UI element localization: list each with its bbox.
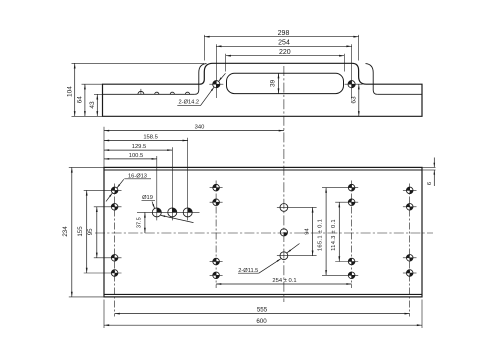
svg-text:37.5: 37.5: [137, 217, 143, 228]
hole projection bump 2: [155, 92, 159, 94]
dimension 100.5: [104, 153, 157, 160]
dimension 298: [204, 30, 358, 38]
profile rear-flange edge line left (43mm line): [103, 93, 195, 95]
plan view plate outline: [104, 167, 422, 297]
extension line raised corner left: [203, 35, 205, 61]
dimension 254: [216, 40, 351, 48]
extension ticks 114.3: [335, 202, 358, 261]
svg-text:254: 254: [278, 40, 290, 47]
svg-text:254 ± 0.1: 254 ± 0.1: [272, 278, 296, 284]
svg-text:95: 95: [87, 228, 94, 235]
svg-text:2-Ø14.2: 2-Ø14.2: [179, 100, 200, 106]
extension line 64 left: [82, 83, 103, 85]
svg-text:600: 600: [256, 318, 267, 325]
column-3 hole row4: [348, 272, 355, 279]
phi19 hole 3: [183, 208, 192, 217]
phi19 hole 1: [152, 208, 161, 217]
profile inner S-bend curve left: [195, 64, 207, 95]
dimension 340: [104, 125, 284, 132]
plan inner edge line bottom: [104, 293, 422, 295]
svg-text:129.5: 129.5: [132, 144, 147, 150]
svg-text:555: 555: [257, 307, 268, 314]
dimension 234: [62, 167, 73, 297]
svg-text:234: 234: [62, 226, 69, 237]
far-right column hole row2: [406, 204, 413, 211]
profile rear-flange edge line right: [377, 93, 422, 95]
dimension 220: [226, 49, 345, 57]
dimension 129.5: [104, 144, 172, 151]
dimension 63 right: [350, 84, 359, 116]
svg-text:155: 155: [77, 226, 84, 237]
center column middle circle (BR quadrant filled): [280, 229, 287, 236]
phi19 hole vertical ticks: [157, 205, 188, 221]
column-2 hole row3: [213, 258, 220, 265]
profile hole left (phi14.2): [213, 81, 220, 88]
dimension 6 edge thickness: [427, 158, 435, 187]
left column hole row4: [111, 270, 118, 277]
dimension 254 +-0.1: [216, 278, 352, 285]
dimension 600: [104, 318, 422, 326]
extension ticks 165.1: [322, 188, 358, 276]
svg-text:165.1 ± 0.1: 165.1 ± 0.1: [318, 219, 324, 251]
dimension 555: [115, 307, 410, 315]
far-right column hole row3: [406, 254, 413, 261]
hole projection bump 1 with center tick: [138, 89, 144, 94]
center column bottom circle: [280, 252, 288, 260]
profile hole right (phi14.2): [348, 81, 355, 88]
extension line phi19 hole3 up: [187, 138, 189, 205]
far-right column hole ticks: [403, 190, 417, 273]
column-2 hole row1: [213, 184, 220, 191]
svg-text:100.5: 100.5: [129, 153, 144, 159]
left column hole row2: [111, 204, 118, 211]
left hole column centerline: [114, 184, 116, 317]
svg-text:340: 340: [195, 125, 205, 131]
column-2 hole ticks: [210, 188, 223, 276]
label 2-phi11.5 with leader: [238, 244, 300, 274]
extension line slot end right: [343, 54, 345, 72]
extension line top-left 104: [72, 62, 205, 64]
extension row lines 155: [84, 190, 122, 273]
hole projection bump 4: [185, 92, 189, 94]
extension line raised corner right: [358, 35, 360, 61]
svg-text:2-Ø11.5: 2-Ø11.5: [238, 268, 258, 274]
extension row lines 95: [94, 207, 122, 258]
svg-text:6: 6: [427, 182, 433, 185]
dimension 158.5: [104, 135, 188, 142]
extension lines 234 left: [69, 167, 104, 297]
svg-text:158.5: 158.5: [143, 135, 158, 141]
extension line plan top-left edge: [103, 127, 105, 168]
main vertical centerline through both views: [283, 66, 285, 302]
dimension 104: [66, 63, 75, 116]
dimension 43: [89, 94, 98, 116]
column-2 centerline: [215, 181, 217, 289]
svg-text:298: 298: [278, 30, 290, 37]
phi19 hole 2: [168, 208, 177, 217]
profile hole left centerline: [209, 44, 223, 98]
extension line phi19 hole1 up: [156, 156, 158, 205]
dimension 114.3 +-0.1: [331, 202, 340, 261]
far-right column hole row1: [406, 187, 413, 194]
extension line phi19 hole2 up: [171, 147, 173, 204]
left column hole row3: [111, 254, 118, 261]
extension line bottom-left: [72, 115, 103, 117]
svg-text:104: 104: [66, 86, 73, 97]
column-3 hole row3: [348, 258, 355, 265]
svg-text:114.3 ± 0.1: 114.3 ± 0.1: [331, 219, 337, 251]
column-3 centerline: [351, 181, 353, 289]
label phi19 with leader: [142, 195, 194, 222]
far-right hole column centerline: [409, 184, 411, 317]
label 2-phi14.2 with leader: [177, 73, 225, 105]
main horizontal centerline: [95, 232, 433, 234]
svg-text:63: 63: [350, 96, 357, 104]
svg-text:220: 220: [279, 49, 291, 56]
far-right column hole row4: [406, 270, 413, 277]
center column top circle: [280, 204, 288, 212]
dimension 155: [77, 190, 88, 273]
extension lines 600: [104, 300, 422, 329]
svg-text:94: 94: [304, 228, 310, 235]
svg-text:39: 39: [270, 79, 277, 87]
svg-text:64: 64: [77, 96, 84, 104]
column-2 hole row4: [213, 272, 220, 279]
dimension 37.5: [137, 212, 146, 233]
column-3 hole row1: [348, 184, 355, 191]
svg-text:43: 43: [89, 101, 96, 109]
profile view outline of bent plate: [103, 63, 423, 116]
hole projection bump 3: [170, 92, 174, 94]
dimension 165.1 +-0.1: [318, 188, 327, 276]
extension line 43 left: [94, 93, 103, 95]
profile inner S-bend curve right: [366, 64, 378, 95]
extension lines plate edge top-right: [422, 167, 436, 170]
dimension 94: [304, 207, 313, 255]
slot in raised face: [227, 73, 344, 93]
dimension 39 slot height: [270, 73, 280, 93]
phi19 row centerline: [137, 211, 200, 213]
dimension 95: [87, 207, 98, 258]
column-2 hole row2: [213, 199, 220, 206]
profile hole right centerline: [345, 44, 363, 98]
left column hole row1: [111, 187, 118, 194]
center column circle ticks: [277, 207, 317, 255]
label 16-phi13 with leader: [106, 173, 151, 201]
dimension 64: [77, 84, 86, 116]
extension line slot end left: [225, 54, 227, 72]
column-3 hole row2: [348, 199, 355, 206]
plan inner edge line top: [104, 169, 422, 171]
